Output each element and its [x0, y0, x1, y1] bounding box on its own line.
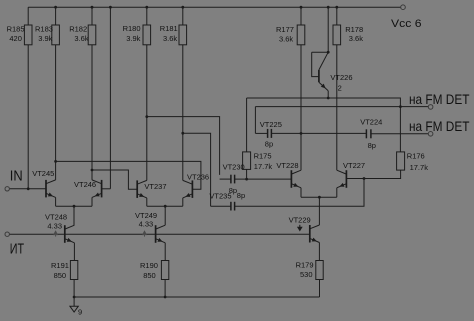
- svg-text:Vcc 6: Vcc 6: [391, 18, 422, 30]
- svg-text:R175: R175: [254, 152, 272, 161]
- svg-text:3.6k: 3.6k: [349, 34, 363, 43]
- svg-text:VT227: VT227: [343, 161, 365, 170]
- svg-text:R179: R179: [296, 260, 314, 269]
- svg-text:VT235: VT235: [209, 192, 231, 201]
- svg-text:3.6k: 3.6k: [163, 34, 177, 43]
- svg-text:R180: R180: [123, 24, 141, 33]
- svg-text:3.9k: 3.9k: [38, 34, 52, 43]
- svg-text:R177: R177: [276, 25, 294, 34]
- svg-text:R176: R176: [407, 152, 425, 161]
- svg-text:R191: R191: [51, 261, 69, 270]
- svg-text:на FM DET: на FM DET: [409, 91, 470, 107]
- svg-text:530: 530: [300, 270, 313, 279]
- svg-text:850: 850: [143, 271, 156, 280]
- svg-text:3.6k: 3.6k: [74, 34, 88, 43]
- svg-text:3.6k: 3.6k: [279, 34, 293, 43]
- svg-text:R190: R190: [140, 261, 158, 270]
- svg-text:VT226: VT226: [330, 73, 352, 82]
- svg-text:3.9k: 3.9k: [126, 34, 140, 43]
- svg-text:VT228: VT228: [276, 161, 298, 170]
- svg-text:850: 850: [54, 271, 67, 280]
- svg-text:4.33: 4.33: [47, 222, 62, 231]
- svg-text:VT229: VT229: [289, 215, 311, 224]
- svg-text:VT248: VT248: [45, 212, 67, 221]
- svg-text:VT225: VT225: [260, 120, 282, 129]
- svg-text:VT245: VT245: [32, 169, 54, 178]
- svg-text:8p: 8p: [368, 141, 376, 150]
- svg-text:17.7k: 17.7k: [254, 162, 273, 171]
- svg-text:R182: R182: [69, 25, 87, 34]
- svg-text:VT246: VT246: [74, 180, 96, 189]
- svg-text:VT236: VT236: [187, 172, 209, 181]
- svg-text:R181: R181: [160, 24, 178, 33]
- svg-text:VT230: VT230: [223, 163, 245, 172]
- svg-text:420: 420: [9, 34, 22, 43]
- svg-text:17.7k: 17.7k: [410, 163, 429, 172]
- svg-text:8p: 8p: [237, 191, 245, 200]
- svg-text:9: 9: [78, 307, 82, 316]
- svg-text:IN: IN: [10, 167, 23, 184]
- svg-text:ИТ: ИТ: [10, 240, 24, 257]
- svg-text:на FM DET: на FM DET: [409, 118, 470, 134]
- svg-text:R183: R183: [35, 25, 53, 34]
- svg-text:R185: R185: [7, 25, 25, 34]
- svg-text:R178: R178: [345, 25, 363, 34]
- svg-text:8p: 8p: [265, 139, 273, 148]
- svg-text:4.33: 4.33: [139, 220, 154, 229]
- svg-text:2: 2: [338, 83, 342, 92]
- svg-text:VT224: VT224: [360, 118, 382, 127]
- svg-text:VT237: VT237: [144, 182, 166, 191]
